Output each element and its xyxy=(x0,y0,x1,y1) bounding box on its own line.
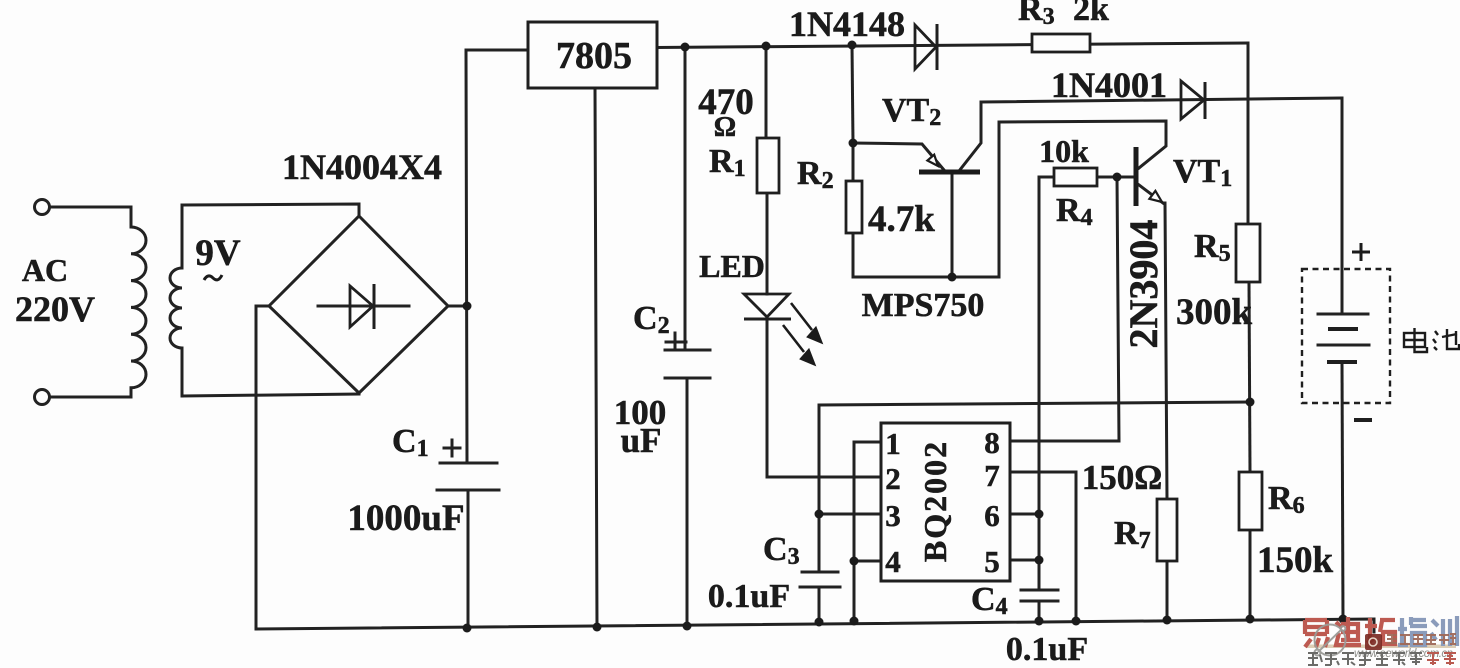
svg-text:2k: 2k xyxy=(1073,0,1109,28)
svg-text:BQ2002: BQ2002 xyxy=(917,440,953,562)
svg-text:1N4148: 1N4148 xyxy=(789,4,905,44)
svg-text:4: 4 xyxy=(885,544,901,579)
svg-text:R7: R7 xyxy=(1114,515,1151,554)
svg-text:R5: R5 xyxy=(1194,228,1231,267)
svg-text:VT1: VT1 xyxy=(1173,153,1232,192)
svg-text:3: 3 xyxy=(885,498,901,533)
svg-text:LED: LED xyxy=(699,248,765,284)
svg-text:6: 6 xyxy=(984,498,1000,533)
svg-text:R1: R1 xyxy=(709,143,746,182)
svg-text:9V: 9V xyxy=(195,233,241,274)
svg-text:R3: R3 xyxy=(1018,0,1055,30)
svg-text:R2: R2 xyxy=(797,155,834,194)
svg-text:C2: C2 xyxy=(633,300,670,339)
svg-text:R4: R4 xyxy=(1056,192,1093,231)
svg-text:4.7k: 4.7k xyxy=(868,199,935,240)
svg-text:300k: 300k xyxy=(1176,292,1253,333)
svg-text:2N3904: 2N3904 xyxy=(1121,220,1166,349)
svg-text:0.1uF: 0.1uF xyxy=(708,578,790,615)
svg-text:0.1uF: 0.1uF xyxy=(1006,631,1088,668)
svg-text:1N4001: 1N4001 xyxy=(1051,65,1167,105)
svg-text:7805: 7805 xyxy=(556,35,632,77)
svg-text:2: 2 xyxy=(885,461,901,496)
svg-text:1: 1 xyxy=(885,426,901,461)
svg-text:C3: C3 xyxy=(763,531,800,570)
svg-text:10k: 10k xyxy=(1039,133,1089,169)
svg-text:150k: 150k xyxy=(1257,540,1334,581)
svg-text:220V: 220V xyxy=(15,289,95,329)
svg-text:uF: uF xyxy=(621,421,662,460)
svg-text:5: 5 xyxy=(984,544,1000,579)
svg-text:1N4004X4: 1N4004X4 xyxy=(282,147,442,187)
svg-text:VT2: VT2 xyxy=(882,92,941,131)
svg-text:1000uF: 1000uF xyxy=(347,498,464,539)
svg-text:AC: AC xyxy=(22,252,68,288)
svg-text:R6: R6 xyxy=(1268,480,1305,519)
svg-text:150Ω: 150Ω xyxy=(1082,458,1163,497)
svg-text:Ω: Ω xyxy=(714,112,736,143)
svg-text:MPS750: MPS750 xyxy=(862,287,985,324)
svg-text:7: 7 xyxy=(984,458,1000,493)
svg-text:C1: C1 xyxy=(392,423,429,462)
svg-text:8: 8 xyxy=(984,425,1000,460)
svg-text:C4: C4 xyxy=(971,581,1008,620)
